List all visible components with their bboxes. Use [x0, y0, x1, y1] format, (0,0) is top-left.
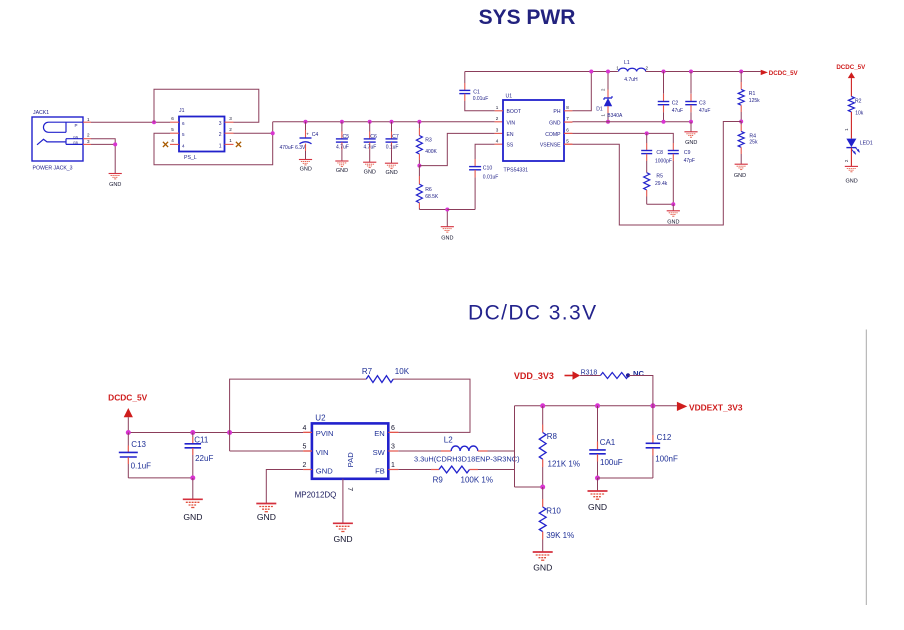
svg-text:GND: GND	[549, 121, 561, 127]
svg-text:R6: R6	[425, 187, 432, 193]
svg-text:GND: GND	[685, 140, 697, 146]
capacitor C1 0.01uF	[459, 72, 503, 111]
svg-text:1: 1	[229, 138, 232, 143]
svg-text:3: 3	[391, 444, 395, 451]
capacitor C7 0.1uF	[386, 122, 399, 164]
svg-text:1000pF: 1000pF	[655, 158, 672, 164]
svg-text:R5: R5	[656, 174, 663, 180]
svg-text:6: 6	[566, 128, 569, 133]
svg-text:2: 2	[496, 116, 499, 121]
svg-text:4: 4	[496, 138, 499, 143]
power flag VDD_3V3	[514, 371, 580, 381]
node CA1 gnd junction	[595, 476, 600, 481]
resistor R1 125k	[738, 72, 760, 122]
svg-text:GND: GND	[385, 170, 397, 176]
resistor R3 400K	[416, 122, 437, 166]
svg-text:SYS PWR: SYS PWR	[479, 6, 576, 29]
svg-text:C6: C6	[370, 134, 377, 140]
svg-text:TPS54331: TPS54331	[504, 168, 529, 174]
resistor R6 68.5K	[416, 166, 439, 210]
wire COMP net	[564, 133, 673, 143]
capacitor C5 4.7uF	[336, 122, 349, 161]
ground COMP network	[667, 204, 680, 225]
svg-text:1: 1	[391, 462, 395, 469]
svg-text:10k: 10k	[855, 111, 864, 117]
svg-text:39K 1%: 39K 1%	[546, 531, 574, 540]
node jack pin1 junction	[152, 120, 156, 124]
svg-text:C12: C12	[657, 433, 672, 442]
op-amp U1 TPS54331	[496, 94, 573, 174]
svg-text:5: 5	[303, 444, 307, 451]
svg-text:GND: GND	[845, 178, 857, 184]
svg-text:U1: U1	[506, 94, 513, 100]
svg-text:C5: C5	[343, 134, 350, 140]
inductor L2 3.3uH	[414, 436, 520, 464]
resistor R5 29.4k	[644, 173, 674, 205]
svg-text:C7: C7	[392, 134, 399, 140]
svg-text:VIN: VIN	[507, 121, 516, 127]
wire R6 to gnd junction	[419, 210, 447, 227]
svg-text:C2: C2	[672, 101, 679, 107]
connector JACK1 POWER JACK_3	[32, 110, 91, 172]
svg-text:R4: R4	[749, 133, 756, 139]
svg-text:PAD: PAD	[346, 452, 355, 468]
node jack gnd junction	[113, 142, 117, 146]
svg-text:8: 8	[566, 105, 569, 110]
svg-text:47pF: 47pF	[684, 158, 695, 164]
wire VSENSE feedback	[564, 122, 741, 226]
wire VDD_3V3 to R318	[580, 375, 600, 377]
wire VDDEXT rail	[515, 405, 677, 407]
ground CA1/C12	[588, 478, 608, 512]
svg-text:R9: R9	[433, 476, 444, 485]
svg-text:BOOT: BOOT	[507, 109, 521, 115]
svg-text:470uF 6.3V: 470uF 6.3V	[280, 145, 307, 151]
svg-text:47uF: 47uF	[672, 108, 683, 114]
node D1 cathode junction	[606, 70, 610, 74]
svg-text:VIN: VIN	[316, 448, 329, 457]
svg-text:4.7uF: 4.7uF	[364, 144, 377, 150]
capacitor C3 47uF	[685, 72, 710, 122]
svg-text:GND: GND	[183, 512, 202, 522]
svg-text:R8: R8	[547, 432, 558, 441]
svg-text:GND: GND	[109, 182, 121, 188]
svg-text:GND: GND	[667, 219, 679, 225]
wire R3 junction to EN	[419, 133, 503, 165]
capacitor C8 1000pF	[641, 133, 672, 172]
svg-text:C9: C9	[684, 150, 691, 156]
node R1 top tap	[739, 70, 743, 74]
svg-text:VDD_3V3: VDD_3V3	[514, 371, 554, 381]
svg-text:DCDC_5V: DCDC_5V	[108, 392, 148, 402]
svg-text:C11: C11	[194, 435, 209, 444]
svg-text:4.7uF: 4.7uF	[336, 144, 349, 150]
svg-text:3: 3	[87, 139, 90, 144]
node NC	[626, 369, 645, 378]
node R6/C10 gnd junction	[445, 208, 449, 212]
svg-text:EN: EN	[374, 429, 385, 438]
svg-text:4: 4	[182, 143, 185, 148]
svg-text:5: 5	[171, 127, 174, 132]
svg-text:GND: GND	[300, 166, 312, 172]
ground R10	[533, 552, 553, 572]
svg-text:29.4k: 29.4k	[655, 181, 668, 187]
svg-text:1: 1	[496, 105, 499, 110]
node C3 gnd junction	[689, 120, 693, 124]
svg-text:GND: GND	[734, 173, 746, 179]
svg-text:25k: 25k	[749, 140, 758, 146]
node PH junction	[589, 70, 593, 74]
resistor R4 25k	[738, 122, 758, 165]
svg-text:MP2012DQ: MP2012DQ	[295, 491, 337, 500]
node R8 top tap	[540, 403, 545, 408]
node C3 top tap	[689, 70, 693, 74]
wire output node	[515, 406, 543, 487]
svg-text:GND: GND	[588, 502, 607, 512]
svg-text:2: 2	[303, 462, 307, 469]
svg-text:0.1uF: 0.1uF	[386, 144, 399, 150]
svg-text:5: 5	[566, 138, 569, 143]
svg-text:VSENSE: VSENSE	[540, 143, 561, 149]
svg-text:CA1: CA1	[600, 438, 616, 447]
node R8/R10/FB junction	[540, 485, 545, 490]
ground C7	[385, 163, 398, 176]
no-connect X J1 pin4	[163, 142, 168, 147]
wire GND rail pin7	[564, 121, 691, 123]
ground U2 pin2	[256, 504, 276, 523]
svg-text:125k: 125k	[749, 98, 760, 104]
svg-text:C8: C8	[656, 150, 663, 156]
ground R6/C10	[441, 227, 454, 242]
svg-text:GB: GB	[73, 141, 79, 145]
node R1/R4 junction	[739, 120, 743, 124]
page border line	[865, 330, 867, 606]
wire VIN pin5 stub	[230, 433, 312, 452]
power flag VDDEXT_3V3	[677, 402, 743, 413]
capacitor C10 0.01uF	[447, 144, 503, 209]
svg-text:6: 6	[171, 116, 174, 121]
svg-text:1: 1	[219, 143, 222, 149]
svg-text:100uF: 100uF	[600, 458, 623, 467]
capacitor C12 100nF	[598, 406, 678, 478]
power flag DCDC_5V input	[108, 392, 148, 432]
svg-text:0.01uF: 0.01uF	[483, 175, 499, 181]
svg-text:LED1: LED1	[860, 141, 873, 147]
svg-text:GND: GND	[364, 169, 376, 175]
resistor R8 121K	[539, 406, 580, 487]
node R7 tap	[227, 430, 232, 435]
svg-text:2: 2	[229, 127, 232, 132]
svg-text:PH: PH	[553, 109, 560, 115]
node J1 output junction	[271, 131, 275, 135]
ground LED1	[845, 166, 858, 184]
connector J1 PS_L	[170, 108, 234, 161]
wire FB to R9	[398, 469, 439, 471]
svg-text:J1: J1	[179, 108, 185, 114]
svg-text:R1: R1	[749, 91, 756, 97]
capacitor C9 47pF	[668, 143, 695, 204]
no-connect X J1 pin1	[236, 142, 241, 147]
svg-text:JACK1: JACK1	[33, 110, 49, 116]
svg-text:DCDC_5V: DCDC_5V	[769, 70, 799, 77]
svg-text:6: 6	[182, 121, 185, 126]
svg-text:R3: R3	[425, 138, 432, 144]
svg-text:B340A: B340A	[607, 113, 623, 119]
svg-text:400K: 400K	[425, 149, 437, 155]
svg-text:47uF: 47uF	[699, 108, 710, 114]
svg-text:2: 2	[219, 132, 222, 138]
resistor R9 100K 1%	[433, 466, 493, 485]
svg-text:SW: SW	[373, 448, 386, 457]
led LED1	[844, 128, 873, 166]
svg-text:P: P	[75, 123, 78, 128]
svg-text:EN: EN	[507, 132, 514, 138]
svg-text:PVIN: PVIN	[316, 429, 334, 438]
wire GND pin2 to ground	[266, 470, 303, 504]
node C11 gnd junction	[190, 475, 195, 480]
node C6 tap	[368, 120, 372, 124]
resistor R10 39K	[539, 487, 574, 552]
svg-text:4: 4	[303, 425, 307, 432]
svg-text:NC: NC	[633, 369, 644, 378]
svg-text:0.01uF: 0.01uF	[473, 96, 489, 102]
wire SW to L2	[398, 450, 451, 452]
capacitor C13 0.1uF	[119, 433, 193, 478]
wire J1 pin5 to pin2 loop	[154, 122, 273, 165]
ground U2 PAD	[333, 523, 353, 544]
wire R7 loop	[230, 379, 470, 432]
node R3/R6 junction	[417, 164, 421, 168]
svg-text:5: 5	[182, 132, 185, 137]
svg-text:6: 6	[391, 425, 395, 432]
wire jack pin1 to J1 pin6	[91, 121, 170, 123]
capacitor C2 47uF	[658, 72, 683, 122]
svg-text:0.1uF: 0.1uF	[131, 461, 152, 470]
svg-text:3: 3	[229, 116, 232, 121]
svg-text:PS_L: PS_L	[184, 155, 197, 161]
svg-text:7: 7	[566, 116, 569, 121]
ground output rail	[684, 122, 697, 147]
node C2 gnd junction	[662, 120, 666, 124]
ground C11/C13	[183, 478, 203, 522]
svg-text:1: 1	[87, 117, 90, 122]
svg-text:POWER JACK_3: POWER JACK_3	[33, 166, 73, 172]
svg-text:C3: C3	[699, 101, 706, 107]
svg-text:GND: GND	[333, 534, 352, 544]
svg-text:R318: R318	[581, 369, 598, 376]
node C5 tap	[340, 120, 344, 124]
capacitor C4 470uF	[280, 122, 319, 160]
wire PH to rail	[572, 72, 591, 111]
svg-text:GND: GND	[533, 562, 552, 572]
wire jack pin2/pin3 to ground	[91, 139, 115, 174]
capacitor C6 4.7uF	[364, 122, 378, 163]
svg-text:D1: D1	[596, 106, 603, 112]
wire PAD pin7 to ground	[343, 479, 353, 524]
svg-text:22uF: 22uF	[195, 454, 213, 463]
wire R9 to divider	[470, 469, 515, 471]
svg-text:2: 2	[87, 133, 90, 138]
node D1 anode junction	[606, 120, 610, 124]
svg-text:4.7uH: 4.7uH	[624, 77, 638, 83]
svg-text:DCDC_5V: DCDC_5V	[836, 64, 866, 71]
resistor R318	[581, 369, 629, 378]
diode D1 B340A	[596, 72, 623, 122]
svg-text:VDDEXT_3V3: VDDEXT_3V3	[689, 402, 743, 412]
svg-text:R10: R10	[546, 507, 561, 516]
svg-text:C10: C10	[483, 166, 493, 172]
ground R4	[734, 164, 748, 179]
node C11 tap	[190, 430, 195, 435]
svg-text:C1: C1	[473, 89, 480, 95]
svg-text:+: +	[306, 131, 309, 136]
wire VIN rail	[273, 121, 503, 123]
svg-text:3: 3	[219, 121, 222, 127]
title DC/DC 3.3V	[468, 302, 598, 325]
wire BOOT top rail	[465, 71, 618, 73]
svg-text:GND: GND	[257, 512, 276, 522]
node R3 tap	[417, 120, 421, 124]
capacitor C11 22uF	[185, 433, 214, 478]
node C13 tap	[126, 430, 131, 435]
svg-text:L1: L1	[624, 60, 630, 66]
svg-text:GND: GND	[441, 236, 453, 242]
svg-text:R7: R7	[362, 367, 373, 376]
svg-text:3.3uH(CDRH3D18ENP-3R3NC): 3.3uH(CDRH3D18ENP-3R3NC)	[414, 454, 520, 463]
node C9/R5 gnd junction	[671, 202, 675, 206]
svg-text:C4: C4	[312, 132, 319, 138]
svg-text:R2: R2	[855, 99, 862, 105]
svg-text:68.5K: 68.5K	[425, 194, 439, 200]
svg-text:U2: U2	[315, 414, 326, 423]
ground C4	[299, 160, 312, 173]
svg-text:3: 3	[496, 128, 499, 133]
node C12 tap	[650, 403, 655, 408]
resistor R2 10k	[848, 89, 863, 132]
svg-text:DC/DC 3.3V: DC/DC 3.3V	[468, 302, 598, 325]
svg-text:GND: GND	[316, 466, 333, 475]
wire NC to rail	[629, 376, 653, 406]
svg-text:GN: GN	[73, 135, 79, 139]
ground C5	[335, 161, 348, 174]
wire L2 to output	[478, 450, 515, 452]
svg-text:GND: GND	[336, 168, 348, 174]
svg-text:100K 1%: 100K 1%	[461, 476, 493, 485]
op-amp U2 MP2012DQ	[295, 414, 399, 500]
svg-text:C13: C13	[131, 440, 146, 449]
node COMP junction	[645, 131, 649, 135]
power flag DCDC_5V output	[761, 70, 799, 78]
svg-text:FB: FB	[375, 466, 385, 475]
svg-text:7: 7	[346, 487, 353, 491]
node C4 tap	[304, 120, 308, 124]
title SYS PWR	[479, 6, 576, 29]
power flag DCDC_5V LED	[836, 64, 866, 89]
ground C6	[363, 162, 376, 175]
node C2 top tap	[662, 70, 666, 74]
wire PVIN rail	[128, 431, 312, 433]
svg-text:10K: 10K	[395, 367, 410, 376]
wire 5V output rail	[646, 71, 761, 73]
wire J1 top loop pin6 to pin3	[154, 89, 259, 122]
svg-text:4: 4	[171, 138, 174, 143]
svg-text:121K 1%: 121K 1%	[548, 459, 580, 468]
capacitor CA1 100uF	[589, 406, 623, 478]
svg-text:SS: SS	[507, 143, 514, 149]
resistor R7 10K	[362, 367, 410, 383]
inductor L1 4.7uH	[616, 60, 648, 83]
svg-text:L2: L2	[444, 436, 453, 445]
ground jack	[109, 174, 122, 189]
node C7 tap	[390, 120, 394, 124]
node CA1 tap	[595, 403, 600, 408]
svg-text:COMP: COMP	[545, 132, 561, 138]
svg-text:100nF: 100nF	[655, 454, 678, 463]
